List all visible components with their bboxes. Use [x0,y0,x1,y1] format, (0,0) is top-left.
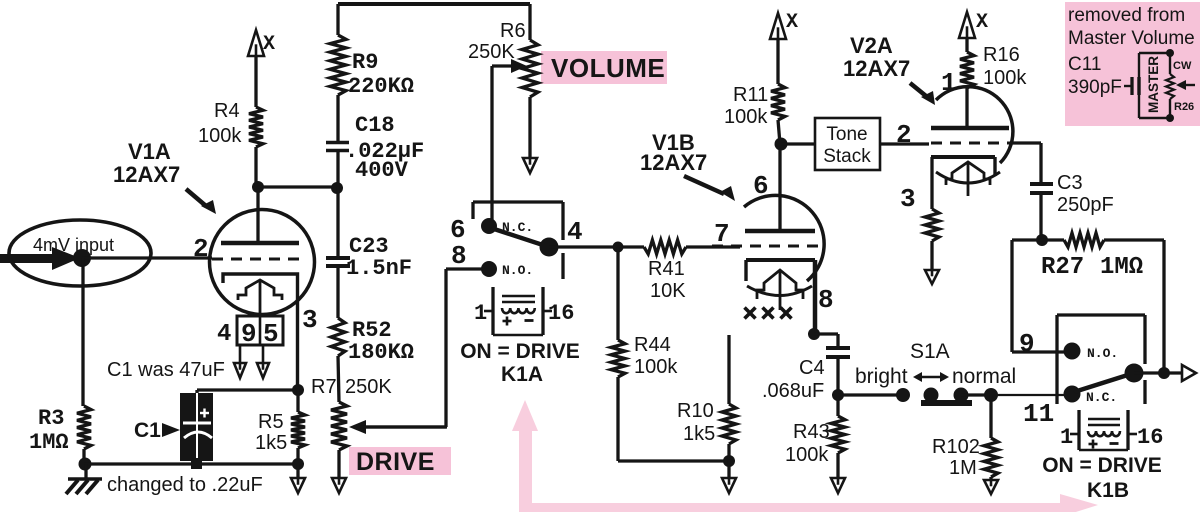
svg-text:V1A: V1A [128,139,171,164]
svg-text:1k5: 1k5 [683,423,715,445]
svg-text:R7: R7 [311,376,337,398]
svg-text:R41: R41 [648,258,685,280]
svg-text:R27: R27 [1041,254,1084,281]
svg-text:220KΩ: 220KΩ [348,74,414,99]
svg-text:1.5nF: 1.5nF [346,256,412,281]
svg-text:N.O.: N.O. [502,263,533,278]
svg-text:R44: R44 [634,334,671,356]
svg-text:VOLUME: VOLUME [551,53,665,83]
svg-text:R10: R10 [677,400,714,422]
svg-text:C4: C4 [799,357,825,379]
svg-text:.068uF: .068uF [762,380,824,402]
svg-text:R4: R4 [214,100,240,122]
svg-text:4: 4 [567,217,583,247]
svg-text:250pF: 250pF [1057,194,1114,216]
svg-text:3: 3 [302,305,318,335]
svg-text:100k: 100k [634,356,678,378]
svg-text:3: 3 [900,184,916,214]
svg-text:N.C.: N.C. [1086,390,1117,405]
svg-text:2: 2 [896,120,912,150]
svg-text:100k: 100k [198,125,242,147]
svg-text:180KΩ: 180KΩ [348,340,414,365]
svg-text:11: 11 [1023,399,1054,429]
svg-text:R5: R5 [258,411,284,433]
svg-text:8: 8 [818,285,834,315]
svg-text:V2A: V2A [850,33,893,58]
svg-text:4: 4 [217,321,231,348]
svg-text:4mV input: 4mV input [33,235,114,255]
svg-text:1: 1 [1060,425,1073,450]
svg-text:1MΩ: 1MΩ [1100,254,1143,281]
svg-text:1k5: 1k5 [255,432,287,454]
svg-text:100k: 100k [785,444,829,466]
svg-text:N.O.: N.O. [1087,346,1118,361]
svg-text:ON = DRIVE: ON = DRIVE [460,340,580,363]
svg-text:1: 1 [941,68,957,98]
svg-text:100k: 100k [983,67,1027,89]
svg-text:Stack: Stack [823,146,871,167]
svg-text:removed from: removed from [1068,5,1185,26]
svg-text:16: 16 [1137,425,1163,450]
svg-text:S1A: S1A [910,340,950,363]
svg-text:C18: C18 [355,113,395,138]
svg-text:C1: C1 [134,419,161,442]
svg-text:250K: 250K [345,376,392,398]
svg-text:ON = DRIVE: ON = DRIVE [1042,454,1162,477]
svg-text:R6: R6 [500,20,526,42]
svg-text:X: X [263,33,275,56]
svg-text:R11: R11 [733,84,768,106]
svg-text:MASTER: MASTER [1146,56,1161,113]
svg-text:400V: 400V [355,158,409,183]
svg-text:changed to .22uF: changed to .22uF [107,474,263,496]
svg-text:X: X [976,11,988,34]
svg-text:2: 2 [193,234,209,264]
svg-text:16: 16 [548,301,574,326]
svg-text:1M: 1M [949,457,977,479]
svg-text:C3: C3 [1057,172,1083,194]
svg-text:C1 was 47uF: C1 was 47uF [107,359,225,381]
svg-text:12AX7: 12AX7 [640,150,707,175]
svg-text:12AX7: 12AX7 [843,56,910,81]
svg-text:100k: 100k [724,106,768,128]
svg-text:R26: R26 [1174,101,1194,113]
svg-text:K1B: K1B [1087,479,1129,502]
svg-text:5: 5 [263,319,279,349]
svg-text:R43: R43 [793,421,830,443]
svg-text:390pF: 390pF [1068,77,1122,98]
svg-text:R3: R3 [38,406,64,431]
svg-text:DRIVE: DRIVE [356,448,435,476]
svg-text:bright: bright [855,365,908,388]
svg-text:1MΩ: 1MΩ [29,430,69,455]
svg-text:9: 9 [241,319,257,349]
svg-text:R16: R16 [983,44,1020,66]
svg-text:Tone: Tone [826,124,867,145]
svg-text:250K: 250K [468,41,515,63]
svg-text:8: 8 [451,241,467,271]
svg-text:1: 1 [474,301,487,326]
svg-text:12AX7: 12AX7 [113,162,180,187]
svg-text:Master Volume: Master Volume [1068,28,1195,49]
svg-text:normal: normal [952,365,1016,388]
svg-text:C11: C11 [1068,54,1101,75]
svg-text:K1A: K1A [501,363,543,386]
svg-text:6: 6 [753,171,769,201]
svg-text:X: X [786,11,798,34]
svg-text:9: 9 [1019,329,1035,359]
svg-text:R102: R102 [932,436,980,458]
svg-text:10K: 10K [650,280,686,302]
svg-text:CW: CW [1173,60,1192,72]
svg-text:R9: R9 [352,50,378,75]
